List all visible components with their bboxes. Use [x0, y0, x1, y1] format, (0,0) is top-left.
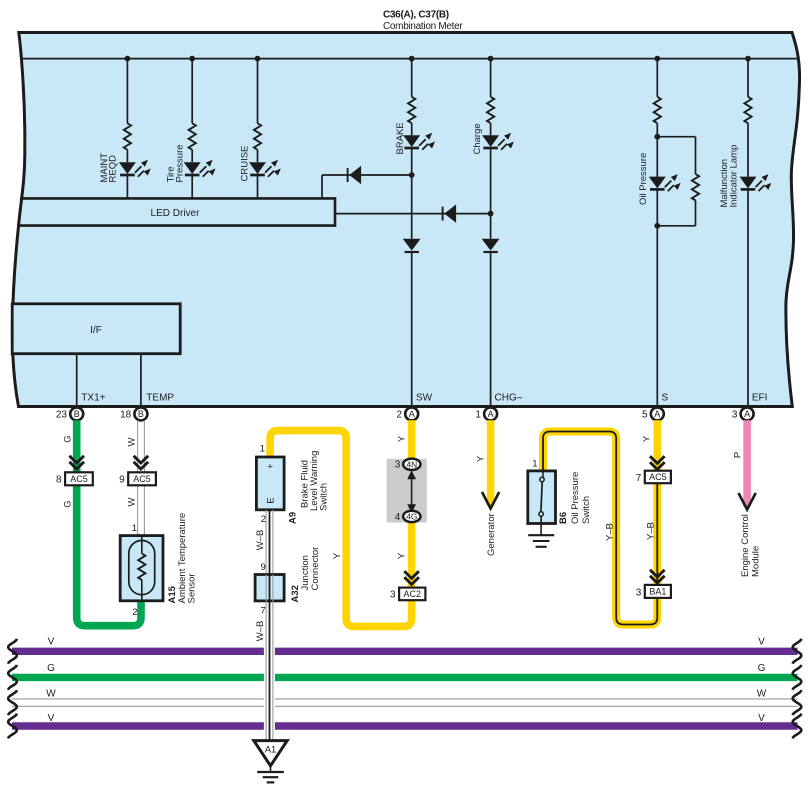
svg-text:BRAKE: BRAKE	[395, 122, 406, 154]
svg-text:+: +	[267, 462, 273, 473]
svg-text:A: A	[409, 409, 415, 419]
svg-text:V: V	[758, 713, 765, 724]
svg-text:TX1+: TX1+	[81, 393, 105, 404]
svg-text:9: 9	[119, 475, 125, 486]
svg-text:Y–B: Y–B	[646, 522, 657, 540]
svg-text:2: 2	[261, 514, 266, 525]
svg-text:W: W	[127, 437, 138, 446]
svg-text:C36(A), C37(B): C36(A), C37(B)	[383, 10, 449, 21]
svg-text:Y: Y	[397, 435, 408, 442]
svg-text:B: B	[74, 409, 80, 419]
svg-text:Charge: Charge	[472, 123, 483, 154]
svg-text:Combination Meter: Combination Meter	[383, 21, 463, 32]
svg-text:A: A	[654, 409, 660, 419]
svg-text:Generator: Generator	[486, 513, 497, 556]
svg-text:Switch: Switch	[319, 483, 330, 511]
svg-text:23: 23	[56, 410, 68, 421]
svg-text:A: A	[744, 409, 750, 419]
svg-text:CHG–: CHG–	[495, 393, 523, 404]
svg-text:4: 4	[395, 512, 401, 523]
svg-text:3: 3	[395, 460, 401, 471]
svg-text:CRUISE: CRUISE	[240, 146, 251, 182]
svg-text:AC5: AC5	[649, 472, 667, 482]
svg-text:Y–B: Y–B	[605, 523, 616, 541]
svg-text:A: A	[488, 409, 494, 419]
svg-text:G: G	[758, 663, 766, 674]
svg-text:AC2: AC2	[403, 589, 421, 599]
svg-text:B6: B6	[558, 512, 569, 524]
svg-text:V: V	[48, 713, 55, 724]
svg-text:EFI: EFI	[752, 393, 768, 404]
svg-text:SW: SW	[416, 393, 433, 404]
svg-text:W: W	[46, 689, 56, 700]
svg-text:G: G	[47, 663, 55, 674]
svg-text:S: S	[662, 393, 669, 404]
svg-text:BA1: BA1	[649, 587, 666, 597]
svg-text:Y: Y	[476, 455, 487, 462]
svg-text:Engine Control: Engine Control	[740, 514, 751, 577]
svg-text:1: 1	[260, 444, 265, 455]
svg-text:W: W	[757, 689, 767, 700]
svg-text:9: 9	[261, 562, 266, 573]
svg-text:W–B: W–B	[255, 530, 266, 551]
svg-text:2: 2	[396, 410, 402, 421]
svg-text:Oil Pressure: Oil Pressure	[570, 472, 581, 524]
svg-text:Y: Y	[642, 435, 653, 442]
svg-text:G: G	[63, 435, 74, 442]
svg-text:Connector: Connector	[310, 547, 321, 591]
svg-text:1: 1	[532, 459, 537, 470]
svg-text:I/F: I/F	[90, 325, 102, 336]
svg-text:Y: Y	[332, 552, 343, 559]
svg-text:4G: 4G	[406, 511, 417, 521]
svg-text:18: 18	[120, 410, 132, 421]
svg-text:Module: Module	[751, 546, 762, 577]
svg-text:TEMP: TEMP	[146, 393, 174, 404]
svg-text:Oil Pressure: Oil Pressure	[638, 153, 649, 205]
svg-text:E: E	[265, 497, 276, 503]
svg-text:Indicator Lamp: Indicator Lamp	[729, 145, 740, 208]
svg-text:A9: A9	[288, 512, 299, 524]
svg-text:AC5: AC5	[70, 474, 88, 484]
svg-text:P: P	[733, 452, 744, 458]
svg-text:V: V	[758, 637, 765, 648]
svg-text:W: W	[127, 497, 138, 506]
svg-text:3: 3	[390, 590, 396, 601]
svg-text:Pressure: Pressure	[175, 144, 186, 182]
svg-text:3: 3	[636, 587, 642, 598]
svg-text:AC5: AC5	[133, 474, 151, 484]
svg-text:REQD: REQD	[108, 155, 119, 183]
svg-text:Switch: Switch	[581, 496, 592, 524]
svg-text:A1: A1	[265, 745, 277, 756]
svg-text:3: 3	[732, 410, 738, 421]
svg-text:7: 7	[261, 606, 266, 617]
svg-text:V: V	[48, 637, 55, 648]
svg-text:2: 2	[132, 607, 137, 618]
svg-text:4N: 4N	[406, 459, 417, 469]
svg-text:G: G	[63, 500, 74, 507]
svg-text:Y: Y	[397, 552, 408, 559]
svg-text:1: 1	[132, 523, 137, 534]
svg-text:8: 8	[56, 475, 62, 486]
svg-text:LED Driver: LED Driver	[151, 208, 201, 219]
svg-text:B: B	[138, 409, 144, 419]
svg-text:Sensor: Sensor	[187, 573, 198, 603]
svg-text:1: 1	[475, 410, 481, 421]
svg-text:7: 7	[636, 473, 642, 484]
svg-text:W–B: W–B	[255, 621, 266, 642]
svg-text:5: 5	[642, 410, 648, 421]
